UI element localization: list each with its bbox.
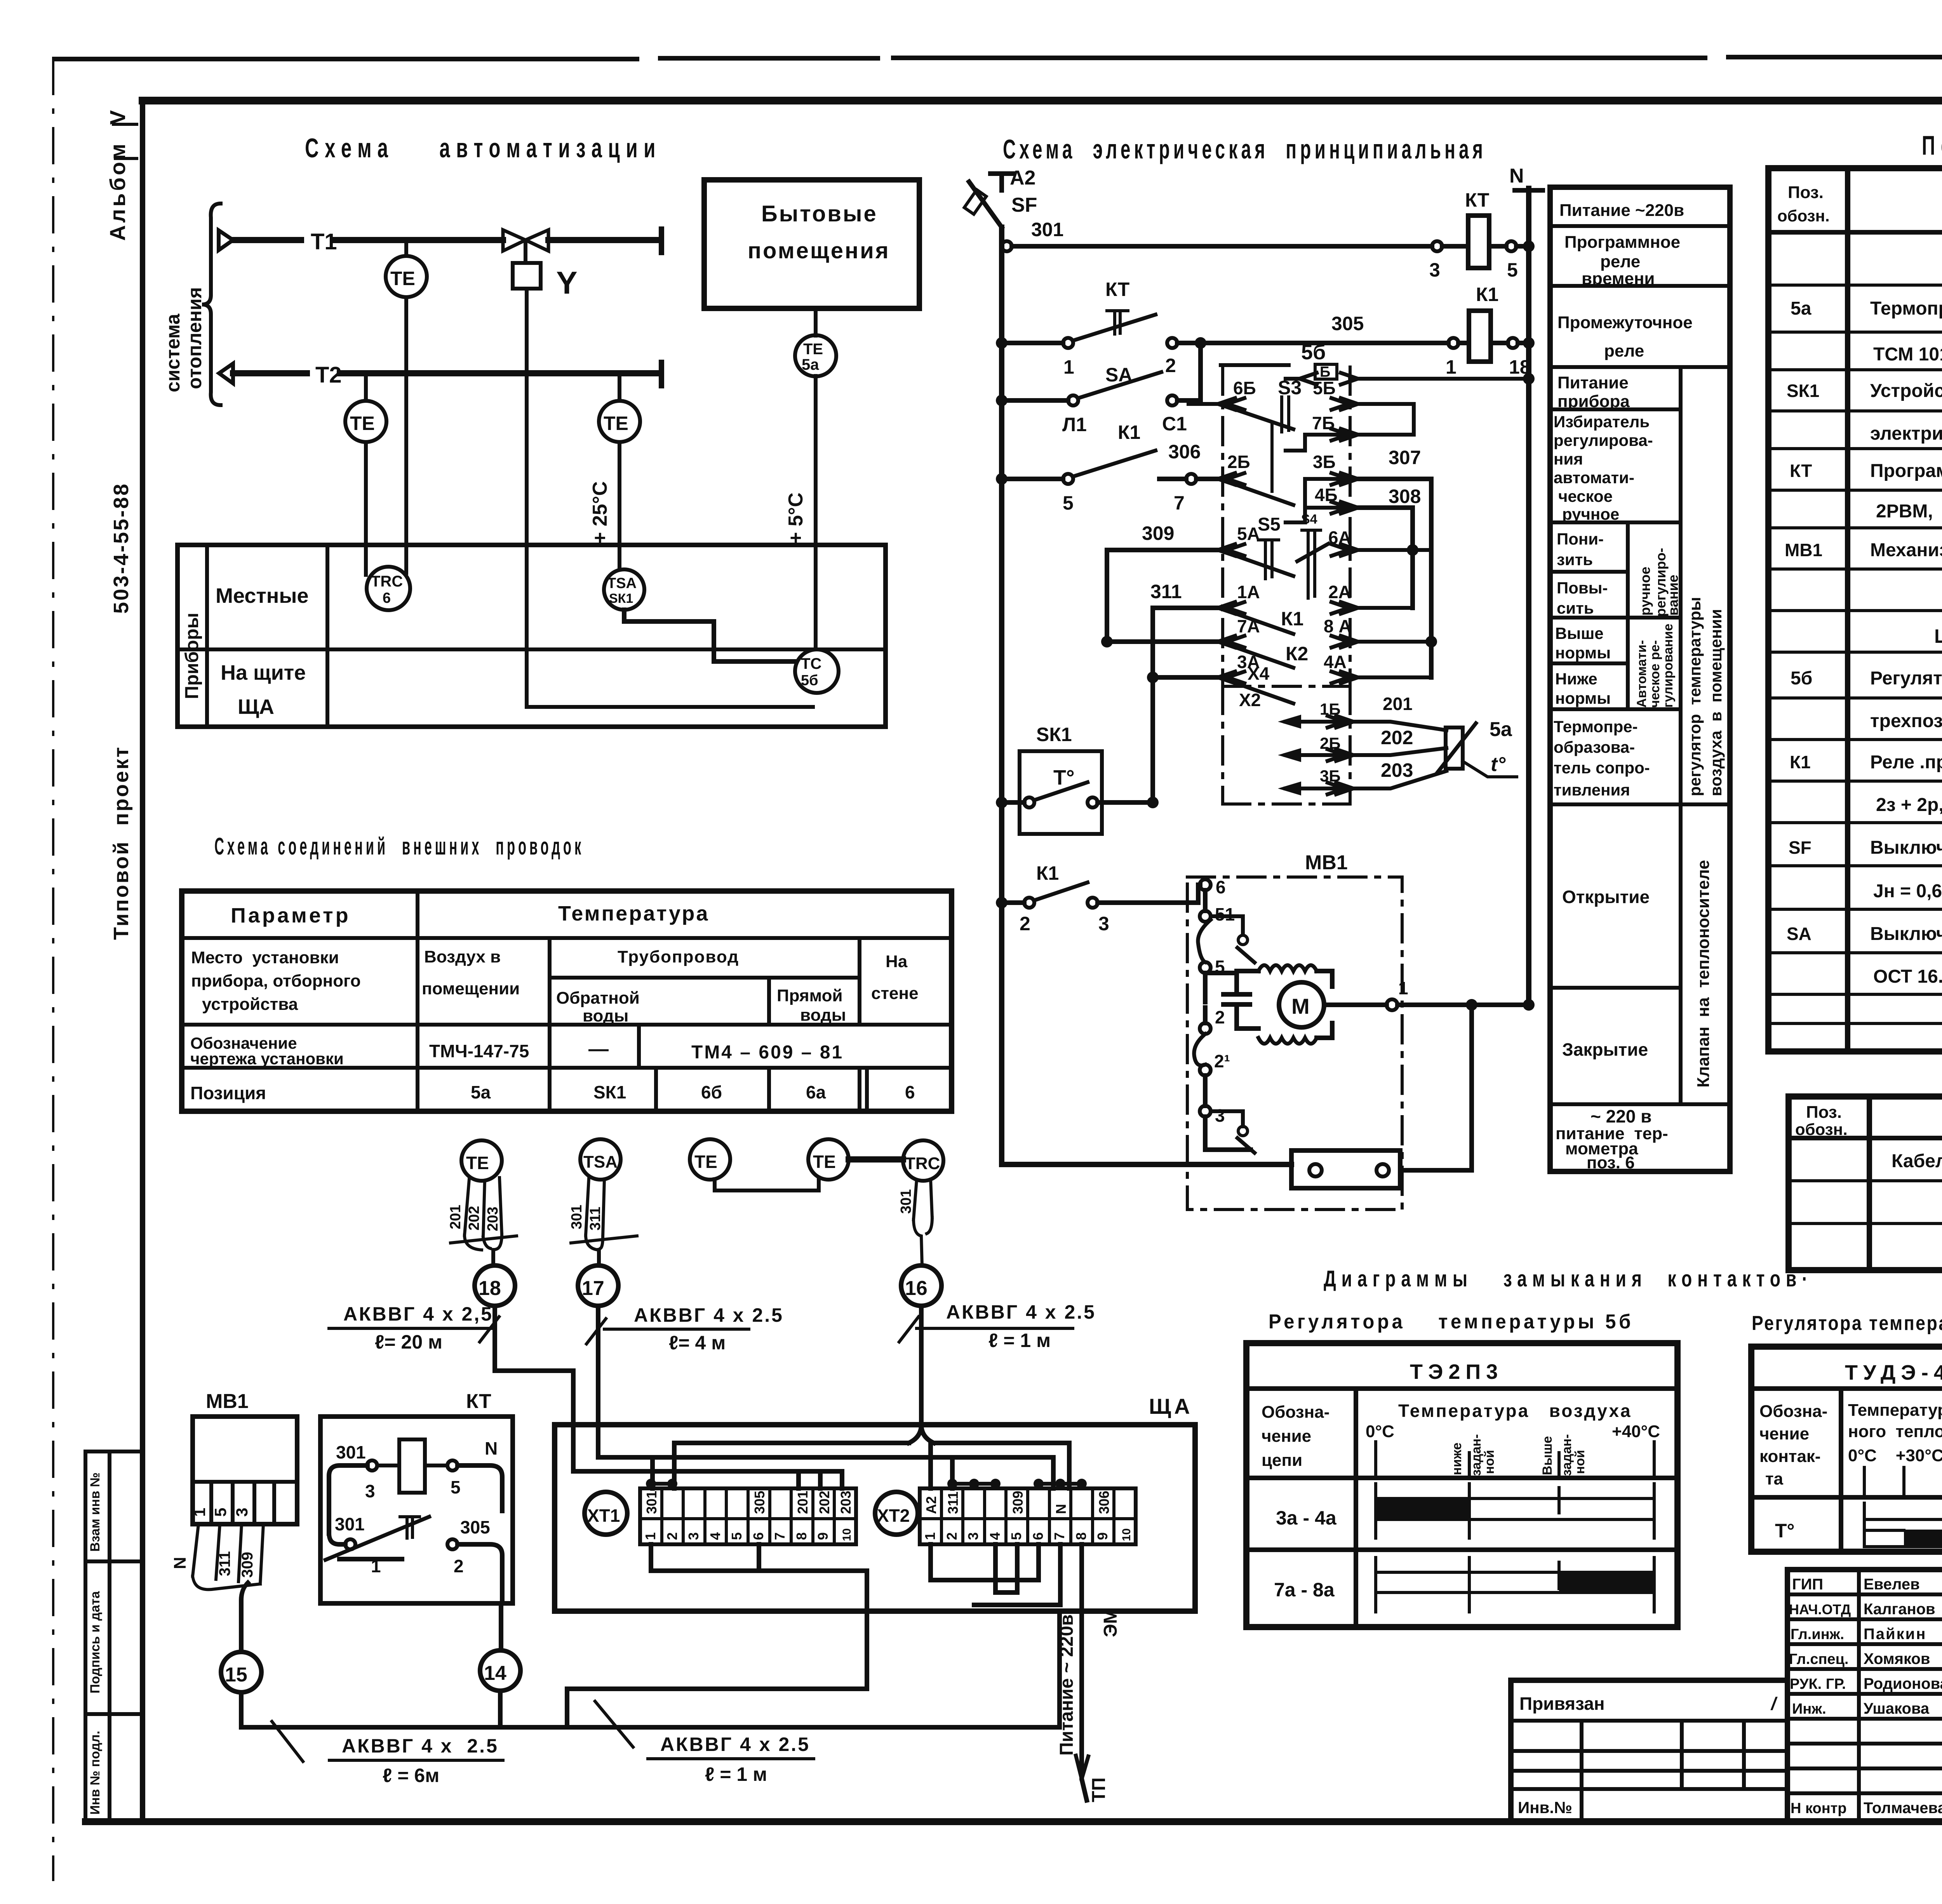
MB1 terminal 6 and limit switch 51-5: [1198, 877, 1255, 977]
svg-text:Регулятор температуры электр: Регулятор температуры электрический: [1870, 668, 1942, 689]
svg-text:Поз.: Поз.: [1806, 1103, 1842, 1122]
svg-text:306: 306: [1096, 1491, 1112, 1514]
svg-text:2: 2: [1165, 355, 1176, 376]
svg-text:АКВВГ 4 х 2.5: АКВВГ 4 х 2.5: [946, 1301, 1096, 1323]
svg-text:+40°С: +40°С: [1612, 1422, 1660, 1441]
svg-text:Избиратель: Избиратель: [1554, 412, 1650, 431]
svg-text:Обозна-: Обозна-: [1262, 1403, 1329, 1422]
svg-text:отопления: отопления: [184, 287, 205, 389]
svg-text:201: 201: [1383, 694, 1413, 714]
svg-text:10: 10: [840, 1528, 853, 1541]
title: Схема электрическая принципиальная: [1003, 134, 1486, 164]
svg-text:Параметр: Параметр: [231, 904, 351, 927]
svg-text:201: 201: [447, 1205, 464, 1229]
sensor TSA (SK1) with tags 301 311: [569, 1139, 637, 1265]
instrument TE 5a under box: [785, 308, 836, 649]
title block annex Привязан: [1511, 1680, 1787, 1822]
svg-text:Термопре-: Термопре-: [1554, 717, 1638, 736]
svg-text:503-4-55-88: 503-4-55-88: [110, 482, 133, 614]
svg-text:Т°: Т°: [1775, 1520, 1795, 1542]
svg-text:Т2: Т2: [315, 362, 342, 388]
svg-text:ГИП: ГИП: [1792, 1576, 1823, 1593]
wire TSA SK1 to TC 5b: [624, 610, 795, 661]
svg-text:К1: К1: [1036, 862, 1059, 884]
svg-text:2: 2: [944, 1532, 960, 1540]
svg-text:301: 301: [569, 1205, 585, 1229]
svg-text:ТЕ: ТЕ: [350, 412, 375, 434]
cable node circle 18: [475, 1265, 515, 1306]
subtitle Регулятора температуры 5б: [1269, 1311, 1634, 1333]
svg-text:ной: ной: [1573, 1450, 1587, 1474]
svg-text:сить: сить: [1557, 599, 1594, 617]
svg-text:4: 4: [707, 1532, 723, 1540]
svg-text:Питание ~ 220в: Питание ~ 220в: [1056, 1614, 1077, 1756]
svg-text:1: 1: [190, 1508, 209, 1517]
svg-text:S5: S5: [1258, 514, 1281, 535]
svg-text:8: 8: [794, 1532, 809, 1540]
svg-text:N: N: [1053, 1504, 1069, 1514]
svg-text:АКВВГ 4 х 2.5: АКВВГ 4 х 2.5: [634, 1304, 784, 1326]
svg-text:Пони-: Пони-: [1557, 530, 1604, 548]
svg-text:ной: ной: [1482, 1450, 1497, 1474]
wire 305 row with KT timer contact: [996, 278, 1469, 378]
bottom connector box: [1291, 999, 1477, 1188]
element list rows text: [1785, 256, 1942, 987]
svg-text:301: 301: [898, 1189, 914, 1214]
svg-text:16: 16: [905, 1277, 927, 1300]
relay coil KT: [1465, 189, 1535, 281]
pin 2Б row and S3 lower contact 3Б 4Б: [1218, 423, 1358, 522]
svg-text:Схема соединений внешних про: Схема соединений внешних проводок: [214, 833, 584, 860]
svg-text:SК1: SК1: [1036, 724, 1072, 745]
svg-text:7: 7: [772, 1532, 788, 1540]
cable node circle 15: [221, 1652, 261, 1692]
resistor thermometer 5a: [1437, 718, 1517, 777]
svg-text:Кабель АКВВГ4 х 2.5 ГОСТ: Кабель АКВВГ4 х 2.5 ГОСТ 1508 –78* Е: [1892, 1151, 1942, 1171]
svg-text:5А: 5А: [1237, 524, 1260, 544]
svg-text:воздуха в помещении: воздуха в помещении: [1707, 609, 1725, 796]
contact S5 and S4 row 5А 6А: [1230, 512, 1431, 598]
contact K1 bottom row to MB1: [996, 862, 1200, 935]
svg-text:7: 7: [1051, 1532, 1067, 1540]
svg-text:Место установки: Место установки: [191, 948, 339, 967]
cable label АКВВГ 4х2,5 l=20м: [329, 1303, 499, 1353]
sensor TE (pos 6b): [690, 1139, 819, 1190]
svg-text:воды: воды: [800, 1006, 846, 1025]
svg-text:Пайкин: Пайкин: [1864, 1626, 1926, 1643]
ТУДЭ-4 Т° bar: [1864, 1503, 1942, 1547]
svg-text:НАЧ.ОТД: НАЧ.ОТД: [1789, 1601, 1851, 1617]
automation scheme: system bracket: [162, 204, 221, 405]
svg-text:АКВВГ 4 х 2.5: АКВВГ 4 х 2.5: [342, 1735, 499, 1757]
valve on T1: [503, 230, 548, 251]
svg-text:А2: А2: [1010, 167, 1035, 189]
svg-text:Н контр: Н контр: [1791, 1800, 1847, 1817]
pins 1Б 2Б 3Б to resistor 5а: [1278, 694, 1446, 795]
svg-text:305: 305: [460, 1517, 490, 1537]
svg-text:Альбом V: Альбом V: [105, 108, 130, 241]
svg-text:Обозна-: Обозна-: [1759, 1402, 1827, 1421]
wires 307 308 to right rails: [1358, 447, 1431, 677]
svg-text:ТЕ: ТЕ: [466, 1153, 489, 1173]
svg-text:МВ1: МВ1: [206, 1390, 249, 1413]
svg-text:Схема электрическая принципи: Схема электрическая принципиальная: [1003, 134, 1486, 164]
svg-text:ТSА: ТSА: [607, 575, 637, 592]
svg-text:Бытовые: Бытовые: [761, 201, 878, 226]
svg-text:5б: 5б: [1301, 341, 1326, 364]
svg-text:Ниже: Ниже: [1555, 670, 1597, 688]
svg-text:контак-: контак-: [1759, 1447, 1821, 1466]
svg-text:309: 309: [1010, 1491, 1026, 1514]
svg-text:Поз.: Поз.: [1788, 183, 1824, 202]
svg-text:6: 6: [1030, 1532, 1046, 1540]
svg-text:Закрытие: Закрытие: [1562, 1039, 1648, 1060]
contact K1 row wire 306: [996, 421, 1218, 514]
svg-text:306: 306: [1168, 441, 1201, 463]
svg-text:Гл.инж.: Гл.инж.: [1791, 1626, 1844, 1643]
sheet top edge line: [54, 57, 1942, 59]
svg-text:прибора, отборного: прибора, отборного: [191, 971, 361, 990]
svg-text:задан-: задан-: [1559, 1434, 1574, 1476]
svg-text:308: 308: [1389, 486, 1421, 507]
panel ЩА box: [555, 1394, 1195, 1611]
svg-text:SА: SА: [1105, 364, 1132, 386]
pipe T2: [219, 362, 661, 388]
XT2 bottom jumper wires: [931, 1544, 1082, 1605]
svg-text:Повы-: Повы-: [1557, 579, 1608, 597]
svg-text:7А: 7А: [1237, 616, 1260, 636]
svg-text:обозн.: обозн.: [1795, 1120, 1848, 1138]
subtitle Регулятора температуры SK: [1752, 1312, 1942, 1335]
svg-text:SF: SF: [1789, 837, 1811, 858]
wire from node 16 into ЩА: [909, 1306, 934, 1443]
svg-text:Регулятора температуры SК: Регулятора температуры SК: [1752, 1312, 1942, 1335]
element list table (Перечень элементов): [1768, 168, 1942, 1051]
cable label АКВВГ 4х2.5 l=1м bottom: [595, 1701, 814, 1785]
svg-text:4А: 4А: [1324, 652, 1347, 672]
svg-text:времени: времени: [1582, 269, 1655, 288]
svg-text:ℓ = 6м: ℓ = 6м: [383, 1765, 439, 1786]
connector X4 X2 dashed boundary: [1223, 663, 1350, 804]
svg-text:Привязан: Привязан: [1519, 1693, 1605, 1714]
svg-text:203: 203: [838, 1491, 854, 1514]
svg-text:трехпозиционный ТЭ2П3, ТУ25-: трехпозиционный ТЭ2П3, ТУ25-02.200 166-8…: [1870, 711, 1942, 731]
svg-text:Приборы: Приборы: [182, 613, 202, 699]
svg-text:нормы: нормы: [1555, 644, 1611, 662]
svg-text:ческое: ческое: [1558, 487, 1613, 505]
svg-text:14: 14: [484, 1662, 506, 1685]
svg-text:+ 25°С: + 25°С: [589, 481, 611, 544]
block KT (time relay terminal box): [320, 1390, 513, 1603]
svg-text:Программное реле времени ~: Программное реле времени ~ 220в: [1870, 461, 1942, 481]
actuator block MB1 dash-dot: [1187, 851, 1402, 1210]
svg-text:301: 301: [1031, 219, 1063, 240]
svg-text:6: 6: [1216, 877, 1226, 897]
svg-text:ного теплоносителя: ного теплоносителя: [1848, 1422, 1942, 1441]
svg-text:К1: К1: [1281, 608, 1303, 630]
svg-text:5а: 5а: [1490, 718, 1512, 741]
svg-text:202: 202: [466, 1206, 482, 1230]
svg-text:309: 309: [1142, 522, 1174, 544]
svg-text:Взам инв №: Взам инв №: [88, 1472, 103, 1552]
svg-text:МВ1: МВ1: [1785, 540, 1822, 560]
contact K1 row 7А 8А: [1101, 608, 1437, 668]
wire 309 and left rail: [1107, 522, 1244, 642]
svg-text:3: 3: [365, 1481, 375, 1501]
svg-text:SК1: SК1: [1787, 381, 1819, 401]
svg-text:На щите: На щите: [221, 661, 306, 684]
svg-text:электрическое ТУДЭ-4, ТУ25-02: электрическое ТУДЭ-4, ТУ25-02. 1074-75: [1870, 423, 1942, 444]
svg-text:2: 2: [664, 1532, 680, 1540]
MB1 wire tags N 311 309: [171, 1524, 263, 1589]
cable node circle 14: [480, 1650, 520, 1691]
svg-text:Обратной: Обратной: [556, 989, 640, 1008]
svg-text:SА: SА: [1787, 924, 1811, 944]
svg-text:ХТ1: ХТ1: [587, 1505, 620, 1526]
svg-text:регулирова-: регулирова-: [1554, 431, 1653, 449]
svg-text:N: N: [171, 1557, 190, 1569]
svg-text:7: 7: [1174, 492, 1185, 514]
svg-text:Воздух в: Воздух в: [424, 947, 501, 966]
svg-text:305: 305: [752, 1491, 767, 1514]
svg-text:Толмачева: Толмачева: [1864, 1800, 1942, 1817]
wire 311 and rail: [1150, 581, 1244, 802]
svg-text:0°С +30°С 250°С: 0°С +30°С 250°С: [1848, 1446, 1942, 1465]
svg-text:Евелев: Евелев: [1864, 1576, 1920, 1593]
svg-text:Реле .промежуточное ПЭ-36, ~: Реле .промежуточное ПЭ-36, ~ 220в: [1870, 752, 1942, 773]
svg-text:система: система: [162, 313, 184, 392]
wire from actuator down to TC 5b row: [527, 289, 813, 707]
svg-text:стене: стене: [871, 984, 919, 1003]
svg-text:АКВВГ 4 х 2.5: АКВВГ 4 х 2.5: [660, 1733, 810, 1755]
contact closure diagrams title: [1324, 1266, 1813, 1291]
cable node circle 16: [901, 1265, 941, 1306]
svg-text:Автомати-: Автомати-: [1634, 640, 1649, 708]
external wiring connection table: [182, 891, 952, 1111]
svg-text:чение: чение: [1759, 1424, 1809, 1443]
svg-text:ТМЧ-147-75: ТМЧ-147-75: [429, 1041, 529, 1061]
svg-text:6а: 6а: [806, 1082, 826, 1102]
svg-text:Механизм исполнительный: Механизм исполнительный: [1870, 540, 1942, 560]
svg-text:6: 6: [905, 1082, 915, 1102]
svg-text:поз. 6: поз. 6: [1587, 1153, 1635, 1172]
svg-text:ТЕ: ТЕ: [803, 341, 823, 358]
svg-text:Х2: Х2: [1239, 690, 1261, 710]
svg-text:образова-: образова-: [1554, 738, 1635, 756]
cable label АКВВГ 4х2.5 l=6м bottom left: [272, 1721, 503, 1786]
cable node circle 17: [578, 1265, 618, 1306]
svg-text:помещения: помещения: [748, 238, 890, 263]
svg-text:5: 5: [1008, 1532, 1024, 1540]
svg-text:SF: SF: [1011, 194, 1037, 216]
svg-text:Т1: Т1: [311, 229, 337, 254]
svg-text:5а: 5а: [802, 356, 819, 373]
Бытовые помещения box: [704, 180, 919, 308]
svg-text:201: 201: [795, 1491, 811, 1514]
svg-text:КТ: КТ: [1790, 461, 1812, 481]
left margin vertical label: Типовой проект: [110, 746, 133, 940]
svg-text:Родионова: Родионова: [1864, 1675, 1942, 1692]
svg-text:ТЕ: ТЕ: [694, 1152, 717, 1172]
svg-text:301: 301: [644, 1491, 660, 1514]
svg-text:ТУДЭ-4: ТУДЭ-4: [1845, 1361, 1942, 1384]
svg-text:SК1: SК1: [609, 591, 633, 606]
diagram table ТУДЭ-4: [1751, 1347, 1942, 1552]
svg-text:вание: вание: [1665, 574, 1681, 616]
svg-text:К1: К1: [1476, 284, 1498, 305]
svg-text:Температура обрат-: Температура обрат-: [1848, 1401, 1942, 1420]
svg-text:15: 15: [225, 1664, 247, 1686]
svg-text:Питание ~220в: Питание ~220в: [1559, 201, 1684, 220]
MB1 motor circuit with capacitor and windings: [1205, 965, 1408, 1044]
bottom text mark -220В under fn table (none): [0, 0, 0, 0]
svg-text:Инв.№: Инв.№: [1518, 1798, 1572, 1817]
specification table: [1789, 1066, 1942, 1270]
svg-text:6: 6: [383, 590, 391, 606]
svg-text:305: 305: [1331, 313, 1364, 334]
svg-text:3: 3: [686, 1532, 701, 1540]
cable label АКВВГ 4х2.5 l=4м: [586, 1304, 784, 1354]
svg-text:Программное: Программное: [1564, 233, 1680, 252]
svg-text:N: N: [485, 1438, 498, 1458]
svg-text:203: 203: [485, 1207, 501, 1231]
svg-text:5: 5: [729, 1532, 745, 1540]
svg-text:Температура воздуха: Температура воздуха: [1398, 1401, 1632, 1421]
svg-text:SК1: SК1: [593, 1082, 626, 1102]
svg-text:ОСТ 16. 0. 526. 001- 77: ОСТ 16. 0. 526. 001- 77: [1873, 966, 1942, 987]
KT timer contact 1-2 wire 305: [325, 1514, 502, 1603]
svg-text:АКВВГ 4 х 2,5: АКВВГ 4 х 2,5: [343, 1303, 493, 1325]
svg-text:2з + 2р, ТУ16 – 523. 622-82: 2з + 2р, ТУ16 – 523. 622-82: [1876, 795, 1942, 815]
contact row 1А 2А: [1230, 582, 1413, 634]
sensor TE (pos 6a): [808, 1139, 903, 1180]
svg-text:2Б: 2Б: [1227, 452, 1250, 472]
svg-text:Термопреобразователь сопроти: Термопреобразователь сопротивления: [1870, 298, 1942, 319]
svg-text:чение: чение: [1262, 1427, 1311, 1446]
regulator block 5b dash-dot boundaries: [1221, 341, 1350, 686]
instrument TE on T1: [386, 240, 427, 573]
svg-text:Прямой: Прямой: [777, 986, 843, 1005]
instrument TC 5b (panel row): [795, 649, 839, 693]
svg-text:А2: А2: [923, 1496, 939, 1514]
svg-text:ТRС: ТRС: [371, 573, 403, 590]
switch SA row: [996, 337, 1206, 435]
svg-text:ниже: ниже: [1450, 1443, 1464, 1475]
svg-text:ТЕ: ТЕ: [390, 268, 415, 289]
breaker SF at top of bus: [964, 167, 1037, 227]
svg-text:зить: зить: [1557, 550, 1593, 569]
svg-text:ТСМ 1019, ТУ25-02-792288-80: ТСМ 1019, ТУ25-02-792288-80: [1873, 344, 1942, 365]
svg-text:Трубопровод: Трубопровод: [618, 947, 739, 966]
svg-text:К1: К1: [1790, 752, 1811, 772]
svg-text:S3: S3: [1278, 377, 1302, 399]
svg-text:Инж.: Инж.: [1792, 1701, 1826, 1717]
svg-text:2¹: 2¹: [1214, 1051, 1230, 1071]
svg-text:N: N: [1509, 165, 1524, 187]
svg-text:помещении: помещении: [422, 979, 520, 998]
svg-text:тивления: тивления: [1554, 781, 1630, 799]
left margin vertical label: 503-4-55-88: [110, 482, 133, 614]
svg-text:8: 8: [1073, 1532, 1089, 1540]
left margin stamp boxes (Взам инв, Подпись и дата, Инв подл): [85, 1451, 143, 1822]
wire MB1 to node 15: [241, 1583, 248, 1652]
function annotation table right of schematic: [1550, 187, 1730, 1172]
svg-text:Выключатель АК63 ~ 1м – У3,: Выключатель АК63 ~ 1м – У3, ~ 220в: [1870, 837, 1942, 858]
svg-text:301: 301: [336, 1442, 366, 1462]
svg-text:5а: 5а: [471, 1082, 491, 1102]
svg-text:Х4: Х4: [1248, 663, 1270, 684]
svg-text:Схема автоматизации: Схема автоматизации: [305, 133, 661, 163]
svg-text:ручное: ручное: [1562, 505, 1619, 523]
terminal strip XT2: [875, 1479, 1136, 1544]
svg-text:ТМ4 – 609 – 81: ТМ4 – 609 – 81: [691, 1042, 844, 1063]
svg-text:Устройство терморегулирующее: Устройство терморегулирующее: [1870, 381, 1942, 401]
sensor TRC (pos 6) with tag 301: [898, 1140, 943, 1265]
title: Схема соединений внешних проводок: [214, 833, 584, 860]
svg-text:Выключатель ПВ1-10 - У3Б ис: Выключатель ПВ1-10 - У3Б исп. I: [1870, 924, 1942, 944]
diagram table ТЭ2П3: [1246, 1343, 1677, 1627]
svg-text:311: 311: [587, 1207, 604, 1230]
svg-text:Температура: Температура: [558, 902, 709, 925]
contact K2 row 3А 4А: [1147, 643, 1431, 703]
svg-text:—: —: [588, 1038, 609, 1060]
svg-text:регулятор температуры: регулятор температуры: [1686, 597, 1704, 796]
sheet left edge dash-dot line: [52, 59, 54, 1880]
svg-text:С1: С1: [1162, 413, 1187, 435]
svg-text:Позиция: Позиция: [190, 1083, 266, 1103]
svg-text:3: 3: [1429, 259, 1440, 281]
svg-text:202: 202: [1381, 727, 1413, 748]
svg-text:ручное: ручное: [1637, 567, 1653, 616]
title: Схема автоматизации: [305, 133, 661, 163]
svg-text:ℓ= 4 м: ℓ= 4 м: [669, 1332, 726, 1354]
svg-text:КТ: КТ: [466, 1390, 491, 1413]
svg-text:ческое ре-: ческое ре-: [1648, 640, 1662, 708]
svg-text:1: 1: [1063, 356, 1074, 378]
svg-text:301: 301: [335, 1514, 365, 1534]
svg-text:Местные: Местные: [216, 584, 309, 607]
svg-text:1: 1: [922, 1532, 938, 1540]
XT1 bottom jumper wires: [567, 1544, 867, 1727]
svg-text:5: 5: [1507, 259, 1518, 281]
ЩА internal top bus wires: [573, 1443, 1069, 1488]
svg-text:1: 1: [1446, 356, 1456, 378]
svg-text:реле: реле: [1600, 252, 1640, 271]
svg-text:ТRС: ТRС: [905, 1154, 940, 1173]
svg-text:КТ: КТ: [1465, 189, 1489, 211]
svg-text:2: 2: [454, 1556, 464, 1576]
svg-text:ℓ = 1 м: ℓ = 1 м: [988, 1330, 1051, 1351]
svg-text:КТ: КТ: [1105, 278, 1129, 300]
svg-text:8 А: 8 А: [1324, 616, 1352, 636]
svg-text:~ 220 в: ~ 220 в: [1590, 1106, 1651, 1126]
svg-text:МВ1: МВ1: [1305, 851, 1348, 874]
valve actuator box and stem: [513, 240, 578, 301]
svg-text:К1: К1: [1118, 421, 1140, 443]
svg-text:Питание: Питание: [1557, 373, 1629, 392]
selector S3 contact 6Б-5Б-7Б: [1189, 377, 1414, 451]
power feed wire Питание 220В with arrow ТП: [1056, 1605, 1121, 1802]
svg-text:5Б: 5Б: [1313, 378, 1336, 398]
svg-text:18: 18: [479, 1277, 501, 1300]
svg-text:задан-: задан-: [1469, 1434, 1484, 1476]
svg-text:Диаграммы замыкания контакт: Диаграммы замыкания контактов·: [1324, 1266, 1813, 1291]
svg-text:Подпись и дата: Подпись и дата: [88, 1591, 103, 1693]
svg-text:1А: 1А: [1237, 582, 1260, 602]
svg-text:17: 17: [582, 1277, 604, 1300]
svg-text:Промежуточное: Промежуточное: [1557, 313, 1693, 332]
svg-text:реле: реле: [1604, 341, 1644, 360]
